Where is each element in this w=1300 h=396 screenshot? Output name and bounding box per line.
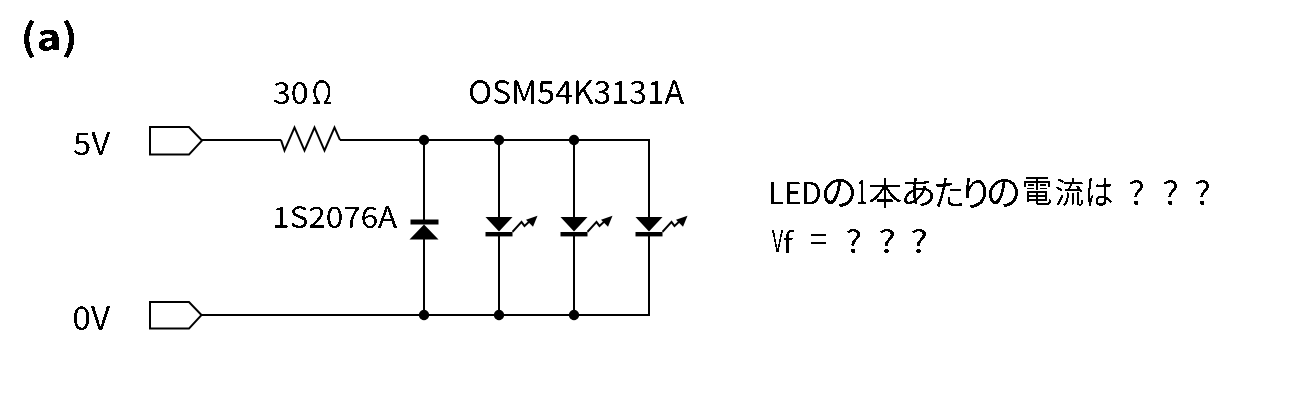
wire LED2 branch top [498, 140, 500, 219]
wire LED3 branch bottom [573, 236, 575, 315]
wire 5V to resistor [202, 139, 281, 141]
wire diode branch bottom [423, 238, 425, 315]
junction node bottom-2 [494, 310, 504, 320]
port symbol 0V [150, 302, 202, 329]
port symbol 5V [150, 127, 202, 155]
annotation text: LEDの1本あたりの電流は？？？ [771, 177, 1209, 208]
LED D4 OSM54K3131A (triangle + bar + light arrow) [636, 216, 688, 237]
wire diode branch top [423, 140, 425, 221]
value label Ω [313, 80, 331, 104]
wire top rail (resistor to right corner) [340, 139, 650, 141]
junction node top-3 [569, 135, 579, 145]
wire LED2 branch bottom [498, 236, 500, 315]
junction node top-1 [419, 135, 429, 145]
junction node top-2 [494, 135, 504, 145]
label (a) [24, 20, 74, 58]
LED D3 OSM54K3131A (triangle + bar + light arrow) [561, 216, 613, 237]
value label 30 [274, 82, 307, 104]
net label 0V [74, 306, 110, 330]
label OSM54K3131A [470, 80, 684, 104]
net label 5V [74, 132, 110, 155]
wire bottom rail 0V [200, 314, 650, 316]
diode D1 1S2076A (cathode bar + triangle) [410, 220, 439, 240]
wire LED4 branch top [648, 140, 650, 219]
annotation text: Vf = ？？？ [772, 229, 926, 253]
wire LED4 branch bottom [648, 236, 650, 315]
wire LED3 branch top [573, 140, 575, 219]
LED D2 OSM54K3131A (triangle + bar + light arrow) [486, 216, 538, 237]
label 1S2076A [275, 206, 397, 228]
resistor R1 30Ω [281, 128, 340, 151]
junction node bottom-1 [419, 310, 429, 320]
junction node bottom-3 [569, 310, 579, 320]
